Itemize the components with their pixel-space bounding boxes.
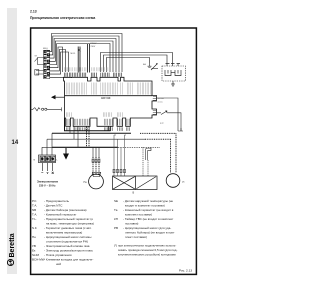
svg-text:N: N — [34, 160, 36, 162]
svg-text:T.A.: T.A. — [32, 213, 37, 217]
svg-text:В: В — [133, 192, 135, 195]
svg-text:отопления (подключается РН): отопления (подключается РН) — [46, 240, 88, 244]
svg-text:плект поставки): плект поставки) — [125, 235, 147, 239]
svg-text:на макс. температуры (перегрев: на макс. температуры (перегрева) — [46, 222, 94, 226]
svg-text:Пн: Пн — [32, 235, 36, 239]
svg-text:- Предохранитель: - Предохранитель — [44, 199, 69, 203]
svg-text:- Циркуляционный насос системы: - Циркуляционный насос системы — [44, 235, 91, 239]
svg-text:- Электромагнитный клапан газа: - Электромагнитный клапан газа — [44, 244, 90, 248]
svg-text:230 V ~ 50 Hz: 230 V ~ 50 Hz — [39, 183, 56, 187]
svg-text:поставки): поставки) — [125, 222, 138, 226]
svg-text:P2/GV: P2/GV — [91, 43, 98, 45]
svg-text:MOD: MOD — [71, 53, 76, 55]
svg-text:комплект поставки): комплект поставки) — [125, 213, 152, 217]
svg-text:- Комнатный термостат (не вход: - Комнатный термостат (не входит в — [123, 208, 174, 212]
svg-text:NB: NB — [32, 208, 36, 212]
svg-text:ВСН-MW: ВСН-MW — [32, 258, 45, 262]
svg-text:- Термостат дымовых газов (с а: - Термостат дымовых газов (с авт. — [44, 226, 92, 230]
svg-text:- Предохранительный термостат: - Предохранительный термостат (о — [44, 217, 93, 221]
svg-text:Ек: Ек — [32, 249, 36, 253]
svg-text:ленного бойлера) (не входит в: ленного бойлера) (не входит в ком- — [125, 231, 175, 235]
svg-text:Принципиальная электрическая с: Принципиальная электрическая схема — [30, 16, 95, 20]
svg-text:отопл.: отопл. — [158, 102, 164, 104]
svg-text:включением перезапуска): включением перезапуска) — [46, 231, 82, 235]
svg-text:14: 14 — [12, 140, 19, 146]
svg-text:- Электрод розжига/контроля пл: - Электрод розжига/контроля плам. — [44, 249, 93, 253]
svg-text:P.F.: P.F. — [32, 199, 37, 203]
svg-text:ключения внешних устройств) ко: ключения внешних устройств) контурами — [118, 253, 176, 257]
svg-text:Рис. 2.13: Рис. 2.13 — [179, 269, 192, 273]
svg-text:- Плата управления: - Плата управления — [44, 253, 72, 257]
svg-text:УВ: УВ — [32, 244, 36, 248]
svg-text:- Датчик наружной температуры: - Датчик наружной температуры (не — [123, 199, 173, 203]
svg-text:- Комнатный термостат: - Комнатный термостат — [44, 213, 77, 217]
svg-text:- Датчик бойлера (сантехника): - Датчик бойлера (сантехника) — [44, 208, 87, 212]
svg-text:ЕА: ЕА — [143, 63, 146, 66]
svg-text:- Циркуляционный насос (для уд: - Циркуляционный насос (для уда- — [123, 226, 171, 230]
svg-text:Та: Та — [114, 208, 118, 212]
svg-text:РВ: РВ — [114, 226, 118, 230]
svg-text:Электропитание: Электропитание — [37, 180, 59, 184]
svg-text:КП: КП — [114, 217, 118, 221]
svg-text:S.F.: S.F. — [32, 226, 37, 230]
svg-text:зовать провода сечением 0,5 мм: зовать провода сечением 0,5 мм (для под- — [118, 248, 177, 252]
svg-text:T.A.: T.A. — [32, 204, 37, 208]
svg-text:L: L — [57, 160, 59, 162]
svg-text:- Датчик NTC: - Датчик NTC — [44, 204, 63, 208]
svg-text:2.13: 2.13 — [30, 10, 37, 14]
svg-text:входит в комплект поставки): входит в комплект поставки) — [125, 204, 165, 208]
svg-text:230V: 230V — [91, 46, 96, 48]
svg-text:(*) при электрических подключе: (*) при электрических подключениях испол… — [114, 244, 176, 248]
svg-text:ний: ний — [56, 262, 61, 266]
svg-text:д.пр: д.пр — [160, 123, 164, 125]
svg-text:ACF 01X: ACF 01X — [101, 97, 111, 100]
svg-text:- Таймер ГВС (не входит в комп: - Таймер ГВС (не входит в комплект — [123, 217, 174, 221]
svg-text:SLIM: SLIM — [32, 253, 40, 257]
svg-text:SE: SE — [114, 199, 118, 203]
svg-text:M6(-): M6(-) — [43, 48, 48, 50]
svg-text:Н: Н — [183, 181, 185, 184]
svg-text:Пн: Пн — [84, 181, 88, 184]
svg-text:- Клеммная колодка для подключ: - Клеммная колодка для подключе- — [44, 258, 93, 262]
svg-text:T.L.: T.L. — [32, 217, 37, 221]
svg-text:Beretta: Beretta — [9, 233, 16, 257]
svg-text:ST: ST — [35, 56, 38, 58]
